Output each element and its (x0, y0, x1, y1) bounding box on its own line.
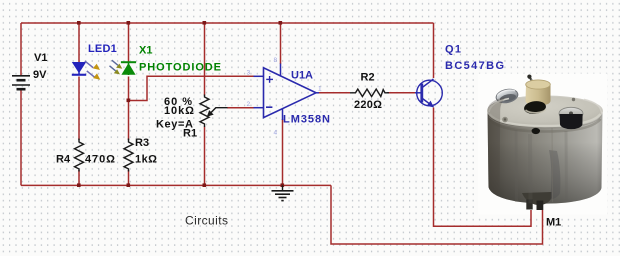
motor M1 photo: pulley top (526, 80, 551, 89)
motor M1 photo: shaft tip (527, 75, 531, 79)
wire: R3 to rail (128, 170, 130, 185)
wire: battery bottom lead (20, 89, 22, 186)
op-amp - input stub pin 2 (254, 107, 264, 109)
op-amp plus sign (266, 76, 273, 83)
svg-text:10kΩ: 10kΩ (164, 105, 194, 117)
motor M1 photo: left rim highlight (489, 99, 509, 113)
wire: Q1 emitter to motor left terminal (434, 108, 532, 227)
svg-text:9V: 9V (33, 69, 47, 81)
junction node A (127, 99, 131, 103)
wire: op-amp V+ supply (280, 23, 282, 64)
wire: node A to op-amp + input (129, 76, 255, 100)
svg-text:R1: R1 (183, 128, 197, 140)
transistor Q1 collector lead (422, 79, 434, 88)
motor M1 terminal right (537, 201, 544, 211)
wire: battery top lead (20, 23, 22, 76)
motor M1 photo: shaft glint (532, 80, 535, 85)
junction top rail at LED (77, 21, 81, 25)
motor M1 photo: left chrome cap (495, 87, 519, 104)
svg-text:1: 1 (318, 86, 322, 93)
wire: op-amp V- to ground rail (282, 119, 284, 185)
wire: R4 to rail (78, 170, 80, 185)
motor M1 photo: left screw hole on top face (502, 117, 508, 123)
transistor Q1 circle (417, 80, 443, 106)
motor M1 photo: shaft (530, 78, 537, 89)
svg-text:Circuits: Circuits (185, 214, 228, 228)
svg-text:Q1: Q1 (445, 44, 461, 56)
resistor R3 (124, 139, 133, 172)
photodiode X1 symbol (121, 61, 136, 75)
svg-text:R4: R4 (56, 154, 71, 166)
wire: pot bottom to rail (204, 127, 206, 186)
motor M1 photo: dark opening below pulley (523, 100, 546, 115)
op-amp output stub pin 1 (316, 92, 319, 94)
svg-text:R2: R2 (361, 72, 375, 84)
svg-text:R3: R3 (135, 137, 149, 149)
wire: ground rail to motor right terminal (331, 185, 543, 244)
junction top rail at photodiode (127, 21, 131, 25)
junction rail at R3 (127, 183, 131, 187)
op-amp V+ stub (280, 64, 282, 77)
svg-text:V1: V1 (34, 52, 47, 64)
svg-text:U1A: U1A (291, 70, 313, 82)
junction rail at R4 (77, 183, 81, 187)
transistor Q1 base stub (415, 92, 421, 94)
transistor Q1 emitter lead with arrow (422, 98, 434, 107)
junction top rail at op-amp V+ (279, 21, 283, 25)
wire: LED to R4 (78, 77, 80, 141)
motor M1 photo: crease band under rim (490, 119, 601, 132)
motor M1 photo: pulley body (526, 85, 551, 106)
motor photo white background (478, 74, 607, 215)
motor M1 photo: front vent hole (532, 128, 540, 134)
ground symbol (272, 185, 294, 200)
op-amp V- stub (282, 109, 284, 120)
resistor R4 (75, 139, 84, 172)
svg-text:4: 4 (274, 130, 278, 137)
potentiometer R1 (200, 95, 209, 128)
svg-text:1kΩ: 1kΩ (135, 154, 157, 166)
wire: pot top (204, 23, 206, 96)
motor M1 photo: dark left body band (488, 97, 507, 196)
wire: Q1 collector to rail (433, 23, 435, 78)
motor M1 photo: right black cylinder (560, 114, 583, 129)
svg-text:2: 2 (247, 101, 251, 108)
motor M1 photo: right disc center (569, 112, 573, 116)
motor M1 photo: right silver disc (559, 107, 583, 119)
junction rail at pot (203, 183, 207, 187)
wire: R2 to Q1 base (387, 92, 416, 94)
motor M1 photo: pulley base ring (526, 95, 551, 103)
svg-text:220Ω: 220Ω (354, 99, 382, 111)
wire: photodiode to node A (128, 77, 130, 141)
svg-text:LM358N: LM358N (283, 114, 330, 126)
wire: pot wiper to op-amp - input (227, 107, 255, 109)
svg-text:3: 3 (247, 70, 251, 77)
potentiometer R1 wiper arrow (207, 108, 228, 117)
motor M1 photo: front seam line (551, 128, 554, 202)
motor M1 photo: top face (488, 96, 603, 126)
motor M1 photo: body streaks (516, 130, 567, 203)
svg-text:X1: X1 (139, 45, 152, 57)
op-amp minus sign (266, 106, 272, 108)
motor M1 photo: small top hole (572, 98, 575, 101)
wire: top +9V rail (21, 22, 434, 24)
op-amp U1A triangle (264, 68, 317, 118)
motor M1 photo: bottom shading (488, 142, 602, 204)
op-amp + input stub pin 3 (254, 75, 264, 77)
svg-text:470Ω: 470Ω (85, 154, 115, 166)
photodiode incoming light arrows (110, 60, 123, 74)
svg-text:PHOTODIODE: PHOTODIODE (139, 62, 221, 74)
transistor Q1 base bar (420, 84, 423, 103)
junction rail at ground (281, 183, 285, 187)
svg-text:LED1: LED1 (88, 43, 117, 55)
motor M1 photo: can body (488, 96, 603, 204)
wire: op-amp output to R2 (319, 92, 351, 94)
svg-text:8: 8 (274, 57, 278, 64)
junction top rail at pot (203, 21, 207, 25)
wire: bottom ground rail (21, 184, 331, 186)
LED D1 symbol (72, 62, 86, 76)
motor M1 photo: right rim highlight (584, 99, 602, 113)
svg-text:M1: M1 (546, 217, 561, 229)
motor M1 photo: top face front rim bright band (490, 114, 601, 126)
motor M1 photo: bottom terminal block (522, 192, 552, 205)
LED1 emission arrows (85, 61, 101, 80)
resistor R2 (350, 89, 389, 96)
wire: photodiode branch upper (128, 23, 130, 62)
battery V1 (12, 76, 30, 89)
wire: LED branch upper (78, 23, 80, 62)
motor M1 terminal left (526, 200, 532, 210)
motor M1 photo: top face front rim line (489, 117, 601, 129)
svg-text:BC547BG: BC547BG (445, 60, 504, 72)
